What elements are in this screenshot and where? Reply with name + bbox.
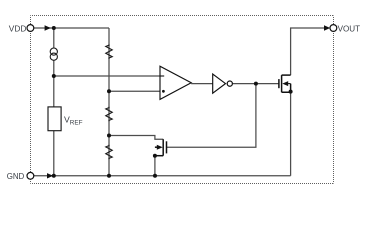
Q2 body arrow <box>157 145 163 150</box>
resistor R3 <box>106 145 112 159</box>
U1 minus-input mark <box>160 75 164 77</box>
Q1 body arrow <box>282 81 288 86</box>
junction: Q2 body-source tie <box>153 154 157 158</box>
voltage reference VREF box <box>48 107 61 131</box>
svg-text:VREF: VREF <box>64 114 83 126</box>
junction: Q1 body-source tie <box>289 90 293 94</box>
junction: Q2 source on GND rail <box>153 174 157 178</box>
junction: VDD rail to current source column <box>52 26 56 30</box>
junction: VREF bottom on GND rail <box>52 174 56 178</box>
wire: comparator output to inverter <box>191 83 213 85</box>
terminal GND <box>27 172 34 179</box>
arrow: GND current direction <box>47 173 53 178</box>
junction: R3 bottom on GND rail <box>107 174 111 178</box>
op-amp comparator U1 <box>160 66 191 99</box>
IC boundary (dotted outline) <box>31 16 334 184</box>
junction: inverter output branch <box>254 82 258 86</box>
wire: current source / VREF column <box>53 28 55 48</box>
wire: VREF bottom lead <box>53 131 55 176</box>
wire: Q1 source down to GND rail <box>290 92 292 176</box>
terminal VDD <box>27 25 34 32</box>
svg-text:VDD: VDD <box>9 24 27 34</box>
wire: inverter output to Q1 gate <box>233 83 279 85</box>
current source I1 <box>50 48 57 60</box>
resistor R1 <box>106 44 112 59</box>
svg-text:VOUT: VOUT <box>338 24 361 33</box>
wire: Q1 drain up and right to VOUT <box>291 28 325 75</box>
transistor Q2 (hysteresis NMOS, mirrored) <box>155 139 167 156</box>
wire: VDD top rail <box>34 27 109 29</box>
wire: Q2 drain to divider node B <box>109 136 163 140</box>
wire: comparator inverting input (node A) <box>54 75 164 77</box>
transistor Q1 (output NMOS) <box>279 75 291 92</box>
junction: divider node B to Q2 drain <box>107 134 111 138</box>
wire: GND bottom rail <box>34 175 291 177</box>
arrow: VDD current direction <box>45 25 51 30</box>
U2 output bubble <box>227 81 232 86</box>
terminal VOUT <box>330 25 337 32</box>
wire: middle resistor-divider column <box>108 28 110 176</box>
wire: comparator non-inverting input from divider tap <box>109 90 160 92</box>
resistor R2 <box>106 107 112 122</box>
svg-text:GND: GND <box>7 172 25 181</box>
U1 plus-input mark <box>162 90 165 93</box>
wire: branch from inverter output down to Q2 gate <box>167 84 256 148</box>
inverter U2 <box>213 74 226 93</box>
wire: Q2 source down to GND rail <box>154 156 156 176</box>
junction: divider tap to non-inverting input <box>107 89 111 93</box>
arrow: VOUT current direction <box>324 25 330 30</box>
junction: current source to VREF / inverting input (node A) <box>52 74 56 78</box>
